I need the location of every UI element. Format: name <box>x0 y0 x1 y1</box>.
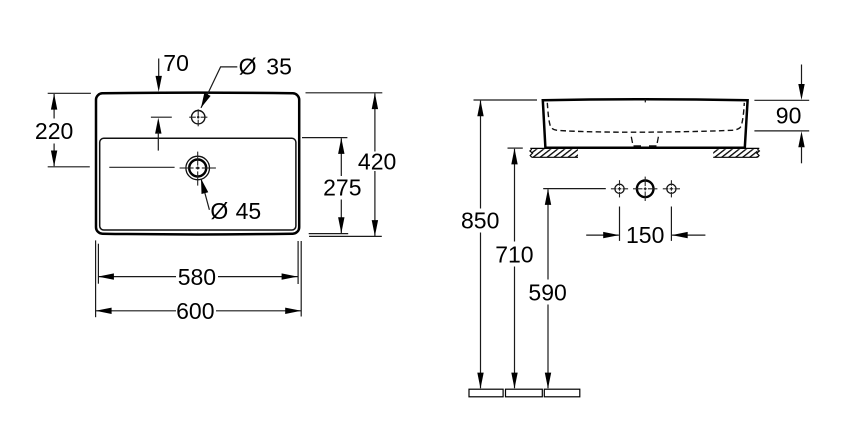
floor tile 1 <box>469 389 503 397</box>
center tick on rim <box>644 99 646 102</box>
drain hidden lines (front) <box>631 137 658 146</box>
drain hole outer circle <box>186 156 210 180</box>
svg-text:150: 150 <box>626 222 664 248</box>
basin inner rim rectangle (plan) <box>100 138 296 230</box>
dimension 590 <box>545 189 551 389</box>
svg-text:600: 600 <box>176 298 214 324</box>
floor tile 2 <box>506 389 543 397</box>
tap hole right centerlines <box>663 180 680 197</box>
faucet hole circle <box>192 111 205 124</box>
label diameter 35 with leader <box>201 67 237 108</box>
svg-text:850: 850 <box>461 207 499 233</box>
drain hole centerlines <box>180 152 216 186</box>
svg-text:580: 580 <box>178 264 216 290</box>
drain level centerline segment inside basin <box>109 166 174 168</box>
basin interior dashed profile <box>547 103 744 132</box>
countertop line <box>530 147 759 149</box>
dimension 70 <box>151 59 172 151</box>
tap hole left centerlines <box>611 180 628 197</box>
dimension 150 <box>586 207 705 241</box>
svg-text:Ø: Ø <box>210 198 228 224</box>
countertop hatch left <box>530 149 578 157</box>
tap hole center (bold, front) <box>637 181 654 198</box>
svg-text:710: 710 <box>495 241 533 267</box>
drain hole inner circle (bold) <box>189 160 206 177</box>
dimension 710 <box>508 148 523 389</box>
countertop hatch right <box>713 149 759 157</box>
svg-text:220: 220 <box>35 118 73 144</box>
svg-text:90: 90 <box>776 102 802 128</box>
floor tile 3 <box>544 389 580 397</box>
faucet hole centerlines <box>189 109 207 126</box>
label diameter 45 with leader <box>201 179 209 210</box>
svg-text:70: 70 <box>163 50 189 76</box>
svg-text:275: 275 <box>323 175 361 201</box>
tap hole left (front) <box>615 184 624 193</box>
dimension 90 <box>754 65 809 164</box>
svg-text:590: 590 <box>528 280 566 306</box>
dimension 220 <box>48 93 91 167</box>
hole level centerline <box>543 188 606 190</box>
basin outline (front) <box>543 99 748 148</box>
svg-text:45: 45 <box>236 198 262 224</box>
basin outer outline (plan) <box>96 93 299 235</box>
dimension 580 <box>98 241 298 284</box>
dimension 275 <box>302 138 348 234</box>
dimension 600 <box>96 240 302 317</box>
svg-text:420: 420 <box>358 149 396 175</box>
tap hole center centerlines <box>633 177 657 201</box>
tap hole right (front) <box>667 184 676 193</box>
dimension 420 <box>306 93 383 237</box>
svg-text:Ø: Ø <box>239 54 257 80</box>
dimension 850 <box>474 100 538 389</box>
svg-text:35: 35 <box>266 54 292 80</box>
